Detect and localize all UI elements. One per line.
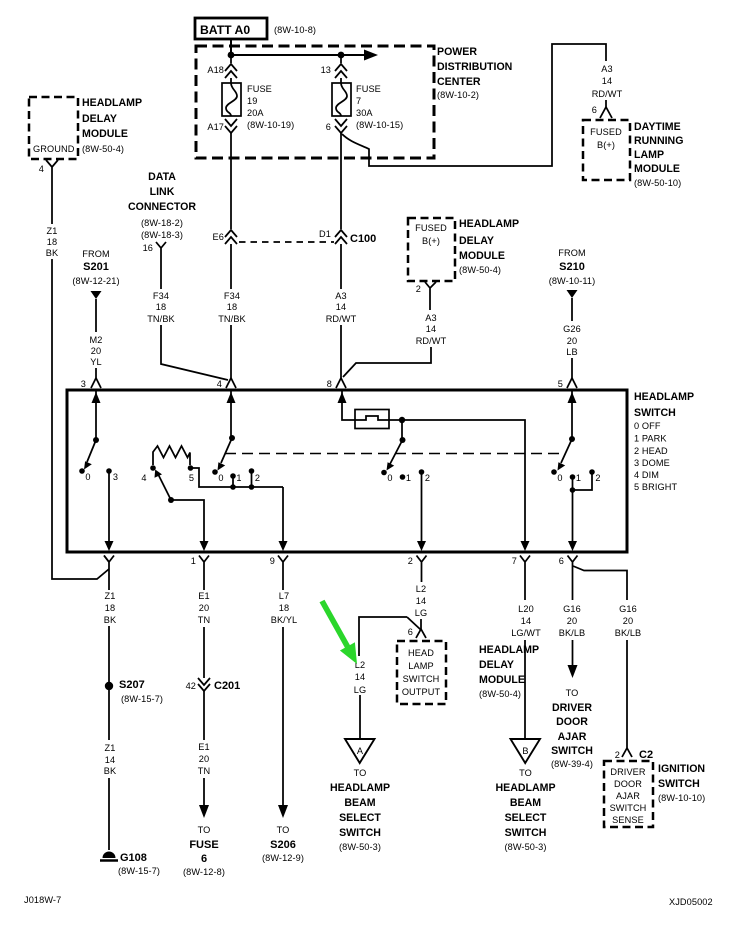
exit arrowhead pin 7	[521, 541, 530, 551]
svg-text:14: 14	[355, 672, 365, 682]
wire label F34 18 TN/BK (DLC branch)	[147, 291, 175, 324]
DLC pin 16 connector	[143, 242, 166, 253]
wire label L7 18 BK/YL	[271, 591, 298, 625]
svg-text:BK: BK	[104, 615, 117, 625]
svg-text:18: 18	[227, 302, 237, 312]
wire to fuse 7	[340, 78, 342, 83]
wire D1 to A3 label	[340, 244, 342, 289]
svg-text:2: 2	[425, 473, 430, 483]
svg-text:E1: E1	[198, 742, 209, 752]
ignition switch dashed box	[604, 761, 653, 827]
svg-text:RD/WT: RD/WT	[326, 314, 357, 324]
svg-text:HEADLAMP: HEADLAMP	[330, 782, 390, 794]
svg-text:CONNECTOR: CONNECTOR	[128, 201, 196, 213]
wire label A3 14 RD/WT (main)	[326, 291, 357, 324]
C100 dashed connector line	[239, 241, 334, 243]
junction dot at fuse 7 tap	[338, 52, 345, 59]
svg-text:F34: F34	[224, 291, 240, 301]
wire label L20 14 LG/WT	[511, 604, 541, 638]
svg-text:DELAY: DELAY	[82, 113, 117, 125]
svg-text:SWITCH: SWITCH	[403, 674, 440, 684]
wire S210 to switch pin 5	[571, 298, 573, 321]
switch pin 8 connector	[327, 378, 346, 389]
switch 1 pivot junction	[93, 437, 99, 443]
svg-text:5: 5	[558, 379, 563, 389]
svg-text:13: 13	[321, 65, 331, 75]
svg-text:DOOR: DOOR	[556, 716, 588, 728]
svg-text:(8W-10-10): (8W-10-10)	[658, 793, 705, 803]
svg-text:FROM: FROM	[558, 248, 585, 258]
wire to splice S207	[108, 626, 110, 683]
wire wiper to park lamp pin 1	[171, 500, 204, 544]
svg-text:3: 3	[81, 379, 86, 389]
svg-text:6: 6	[326, 122, 331, 132]
svg-text:G16: G16	[619, 604, 637, 614]
svg-text:DAYTIME: DAYTIME	[634, 121, 681, 133]
mechanical linkage dashed line	[225, 453, 562, 455]
dimmer wiper pivot	[168, 497, 174, 503]
svg-text:MODULE: MODULE	[634, 163, 680, 175]
svg-text:AJAR: AJAR	[616, 791, 640, 801]
destination label TO S206	[262, 825, 304, 863]
svg-text:POWER: POWER	[437, 46, 477, 58]
switch ground pin connector	[104, 556, 114, 571]
wire Z1 from HDM ground down	[51, 172, 53, 224]
svg-text:YL: YL	[90, 357, 101, 367]
svg-text:14: 14	[602, 76, 612, 86]
svg-text:SWITCH: SWITCH	[551, 745, 593, 757]
wire G26 to pin 5	[571, 358, 573, 378]
destination arrowhead (to fuse 6)	[199, 805, 209, 818]
svg-text:18: 18	[105, 603, 115, 613]
rheostat contact 5	[188, 465, 194, 471]
connector C201 (double chevron)	[186, 678, 241, 692]
svg-text:CENTER: CENTER	[437, 76, 481, 88]
svg-text:(8W-50-3): (8W-50-3)	[504, 842, 546, 852]
svg-text:L2: L2	[416, 584, 426, 594]
svg-text:C201: C201	[214, 680, 240, 692]
svg-text:(8W-50-4): (8W-50-4)	[479, 689, 521, 699]
wire pin 6 down (door ajar branch)	[572, 568, 574, 600]
HDM FUSED B(+) pin label	[415, 223, 447, 246]
wire pin 8 into switch	[342, 390, 355, 420]
switch 1 contact 3	[106, 468, 112, 474]
svg-text:TN/BK: TN/BK	[218, 314, 246, 324]
svg-text:(8W-10-2): (8W-10-2)	[437, 90, 479, 100]
switch 3 contact 1	[400, 474, 406, 480]
svg-text:7: 7	[356, 96, 361, 106]
svg-text:BEAM: BEAM	[344, 797, 375, 809]
dimmer rheostat resistor	[153, 446, 190, 465]
svg-text:SWITCH: SWITCH	[339, 827, 381, 839]
svg-text:A3: A3	[601, 64, 612, 74]
svg-text:TO: TO	[198, 825, 211, 835]
wire S207 down	[108, 690, 110, 740]
svg-text:1: 1	[236, 473, 241, 483]
exit arrowhead (ground pin)	[105, 541, 114, 551]
svg-text:BK: BK	[46, 248, 59, 258]
svg-text:2 HEAD: 2 HEAD	[634, 446, 668, 456]
pin 5 entry arrowhead	[568, 392, 577, 403]
svg-text:B(+): B(+)	[597, 140, 615, 150]
switch bottom pin (ground, unnumbered) connector	[104, 556, 109, 563]
switch 1 arm (dome switch)	[87, 440, 96, 462]
wire label M2 20 YL	[90, 335, 103, 367]
wire to connector C2	[626, 640, 628, 748]
svg-text:9: 9	[270, 556, 275, 566]
wire S201 to switch pin 3	[95, 299, 97, 332]
wire F34 to switch pin 4	[230, 325, 232, 378]
destination label TO DRIVER DOOR AJAR SWITCH	[551, 688, 593, 769]
off-page connector B	[511, 739, 541, 763]
bus wire with arrow	[231, 54, 365, 56]
wire label G16 20 BK/LB (left)	[559, 604, 586, 638]
svg-text:C100: C100	[350, 233, 376, 245]
svg-text:SENSE: SENSE	[612, 815, 644, 825]
wire bus to connector A18	[230, 55, 232, 63]
wire label E1 20 TN (lower)	[198, 742, 210, 776]
svg-text:FUSED: FUSED	[415, 223, 447, 233]
ignition switch pin label	[610, 767, 647, 825]
svg-text:(8W-18-2): (8W-18-2)	[141, 218, 183, 228]
bus arrowhead	[364, 50, 378, 61]
wire label Z1 18 BK	[46, 226, 59, 258]
svg-text:30A: 30A	[356, 108, 373, 118]
svg-text:20: 20	[567, 616, 577, 626]
svg-text:DATA: DATA	[148, 171, 176, 183]
svg-text:0 OFF: 0 OFF	[634, 421, 661, 431]
svg-text:5 BRIGHT: 5 BRIGHT	[634, 482, 677, 492]
switch pin 4 connector	[217, 378, 236, 389]
wire pin 5 into switch	[571, 390, 573, 439]
battery feed BATT A0 box	[195, 18, 267, 39]
switch 3 contact 2	[419, 469, 425, 475]
pin 8 entry arrowhead	[338, 392, 347, 403]
connector E6 (double chevron)	[213, 230, 237, 244]
svg-text:LAMP: LAMP	[634, 149, 664, 161]
svg-text:S206: S206	[270, 839, 296, 851]
svg-text:BK/LB: BK/LB	[559, 628, 586, 638]
svg-text:4 DIM: 4 DIM	[634, 470, 659, 480]
svg-text:19: 19	[247, 96, 257, 106]
switch 2 contact 0	[212, 469, 218, 475]
wire label A3 14 RD/WT (HDM branch)	[416, 313, 447, 346]
svg-text:(8W-39-4): (8W-39-4)	[551, 759, 593, 769]
junction dot breaker output	[399, 417, 405, 423]
svg-text:14: 14	[426, 324, 436, 334]
wire to HDM pin 6	[420, 619, 422, 629]
switch 3 arm (headlamp feed)	[390, 440, 403, 464]
power distribution center label	[437, 46, 512, 100]
pin 4 entry arrowhead	[227, 392, 236, 403]
svg-text:5: 5	[189, 473, 194, 483]
svg-text:AJAR: AJAR	[558, 731, 587, 743]
svg-text:18: 18	[279, 603, 289, 613]
wire DLC pin 16 down	[160, 253, 162, 289]
connector C2 pin 2	[615, 748, 653, 761]
svg-text:D1: D1	[319, 229, 331, 239]
svg-text:16: 16	[143, 243, 153, 253]
svg-text:20A: 20A	[247, 108, 264, 118]
svg-text:HEADLAMP: HEADLAMP	[82, 97, 142, 109]
svg-text:0: 0	[557, 473, 562, 483]
svg-text:S210: S210	[559, 261, 585, 273]
wire pin 1 down	[203, 570, 205, 590]
destination label TO FUSE 6	[183, 825, 225, 877]
svg-text:(8W-10-8): (8W-10-8)	[274, 25, 316, 35]
svg-text:DISTRIBUTION: DISTRIBUTION	[437, 61, 512, 73]
svg-text:FUSE: FUSE	[356, 84, 381, 94]
connector A18 (double chevron)	[207, 64, 237, 78]
svg-text:2: 2	[615, 750, 620, 760]
svg-text:0: 0	[218, 473, 223, 483]
svg-text:L20: L20	[518, 604, 534, 614]
exit arrowhead pin 6	[568, 541, 577, 551]
svg-text:DRIVER: DRIVER	[610, 767, 646, 777]
wire label G16 20 BK/LB (right)	[615, 604, 642, 638]
switch pin 7 connector	[512, 556, 530, 571]
wire A18 to fuse 19	[230, 78, 232, 83]
fuse 19 20A	[222, 83, 241, 116]
svg-text:14: 14	[105, 755, 115, 765]
svg-text:42: 42	[186, 681, 196, 691]
svg-text:OUTPUT: OUTPUT	[402, 687, 441, 697]
svg-text:RD/WT: RD/WT	[592, 89, 623, 99]
svg-text:LAMP: LAMP	[408, 661, 433, 671]
fuse 7 30A	[332, 83, 351, 116]
headlamp delay module label (bottom)	[479, 644, 539, 699]
svg-text:SWITCH: SWITCH	[610, 803, 647, 813]
splice source marker FROM S201	[72, 249, 119, 286]
wire breaker to junction	[389, 419, 402, 421]
wire C201 down	[203, 691, 205, 740]
svg-text:A17: A17	[207, 122, 224, 132]
svg-text:4: 4	[217, 379, 222, 389]
wire label A3 14 RD/WT (DRL feed)	[592, 64, 623, 99]
svg-text:J018W-7: J018W-7	[24, 895, 61, 905]
svg-text:(8W-50-10): (8W-50-10)	[634, 178, 681, 188]
svg-text:1: 1	[191, 556, 196, 566]
connector D1 (double chevron)	[319, 229, 347, 244]
svg-text:RD/WT: RD/WT	[416, 336, 447, 346]
switch 1 contact 0	[79, 468, 85, 474]
svg-text:TN: TN	[198, 766, 210, 776]
svg-text:BATT A0: BATT A0	[200, 23, 250, 37]
wire E6 to F34 label	[230, 244, 232, 289]
svg-text:HEADLAMP: HEADLAMP	[634, 391, 694, 403]
wire ground pin down to S207	[108, 570, 110, 590]
svg-text:(8W-12-21): (8W-12-21)	[72, 276, 119, 286]
connector pin 6 (double chevron)	[326, 119, 347, 133]
svg-text:0: 0	[387, 473, 392, 483]
svg-text:3: 3	[113, 472, 118, 482]
wire lamp bus to pin 9	[282, 487, 284, 544]
svg-text:BEAM: BEAM	[510, 797, 541, 809]
svg-text:GROUND: GROUND	[33, 144, 75, 154]
svg-text:FROM: FROM	[82, 249, 109, 259]
wire pin 9 down	[282, 570, 284, 590]
headlamp delay module label (left)	[82, 97, 142, 154]
svg-text:(8W-50-4): (8W-50-4)	[82, 144, 124, 154]
wire label L2 14 LG (branch)	[354, 660, 366, 695]
svg-text:1: 1	[406, 473, 411, 483]
svg-text:TN/BK: TN/BK	[147, 314, 175, 324]
svg-text:(8W-12-9): (8W-12-9)	[262, 853, 304, 863]
svg-text:7: 7	[512, 556, 517, 566]
svg-text:LG/WT: LG/WT	[511, 628, 541, 638]
svg-text:2: 2	[416, 284, 421, 294]
svg-text:B: B	[522, 746, 528, 756]
wire contact 3 to bottom pin	[108, 473, 110, 544]
splice S207	[105, 679, 163, 704]
svg-text:HEAD: HEAD	[408, 648, 434, 658]
wire branch fuse 7 to daytime running lamp module	[342, 44, 606, 166]
switch pin 3 connector	[81, 378, 101, 389]
fuse 7 value labels	[356, 84, 403, 130]
svg-text:Z1: Z1	[105, 743, 116, 753]
svg-text:1: 1	[576, 473, 581, 483]
svg-text:SELECT: SELECT	[505, 812, 547, 824]
svg-text:RUNNING: RUNNING	[634, 135, 683, 147]
wire label L2 14 LG (main)	[415, 584, 427, 618]
fuse 19 value labels	[247, 84, 294, 130]
wire label E1 20 TN (upper)	[198, 591, 210, 625]
wire to pin 6	[572, 490, 574, 544]
svg-text:BK/YL: BK/YL	[271, 615, 298, 625]
svg-text:TO: TO	[566, 688, 579, 698]
svg-text:HEADLAMP: HEADLAMP	[459, 218, 519, 230]
svg-text:6: 6	[559, 556, 564, 566]
wire to S206 arrow	[282, 627, 284, 806]
wire pin 4 into switch	[230, 390, 232, 438]
svg-text:(8W-50-4): (8W-50-4)	[459, 265, 501, 275]
wire branch to ignition switch	[573, 566, 627, 600]
svg-text:MODULE: MODULE	[479, 674, 525, 686]
svg-text:G108: G108	[120, 852, 147, 864]
wire to triangle A	[359, 695, 361, 739]
svg-text:IGNITION: IGNITION	[658, 763, 705, 775]
switch 2 arm (park/head feed)	[221, 438, 232, 463]
headlamp delay module (ground) dashed box	[29, 97, 78, 159]
wire label G26 20 LB	[563, 324, 581, 357]
wire pin 2 down	[421, 568, 423, 582]
svg-text:(8W-18-3): (8W-18-3)	[141, 230, 183, 240]
destination label TO HEADLAMP BEAM SELECT SWITCH (A)	[330, 768, 390, 852]
svg-text:18: 18	[156, 302, 166, 312]
svg-text:TO: TO	[519, 768, 532, 778]
switch 2 contact 2	[249, 468, 255, 474]
svg-text:TO: TO	[354, 768, 367, 778]
svg-text:BK/LB: BK/LB	[615, 628, 642, 638]
svg-text:(8W-12-8): (8W-12-8)	[183, 867, 225, 877]
svg-text:6: 6	[592, 105, 597, 115]
wire pin 3 into switch	[95, 390, 97, 440]
svg-text:MODULE: MODULE	[82, 128, 128, 140]
svg-text:HEADLAMP: HEADLAMP	[479, 644, 539, 656]
daytime running lamp module dashed box	[583, 120, 630, 180]
headlamp switch label and position legend	[634, 391, 694, 492]
switch pin 1 connector	[191, 556, 209, 571]
svg-text:G16: G16	[563, 604, 581, 614]
svg-text:SWITCH: SWITCH	[658, 778, 700, 790]
switch 4 contact 2	[589, 469, 595, 475]
svg-text:(8W-10-19): (8W-10-19)	[247, 120, 294, 130]
switch pin 5 connector	[558, 378, 577, 389]
switch pin 2 connector	[408, 556, 427, 569]
wire to triangle B	[524, 640, 526, 739]
exit arrowhead pin 2	[417, 541, 426, 551]
svg-text:Z1: Z1	[47, 226, 58, 236]
svg-text:E6: E6	[213, 232, 224, 242]
svg-text:(8W-15-7): (8W-15-7)	[118, 866, 160, 876]
svg-text:6: 6	[201, 853, 207, 865]
wire label F34 18 TN/BK (main)	[218, 291, 246, 324]
exit arrowhead pin 9	[279, 541, 288, 551]
pin 3 entry arrowhead	[92, 392, 101, 403]
switch 4 contact 0	[551, 469, 557, 475]
svg-text:DOOR: DOOR	[614, 779, 642, 789]
daytime running lamp module label	[634, 121, 683, 188]
svg-text:(8W-50-3): (8W-50-3)	[339, 842, 381, 852]
wire contact 2 to pin 2	[421, 472, 423, 544]
svg-text:Z1: Z1	[105, 591, 116, 601]
S201 feed arrow	[91, 291, 102, 299]
headlamp delay module (switch output) dashed box	[397, 641, 446, 704]
svg-text:14: 14	[521, 616, 531, 626]
svg-text:20: 20	[567, 336, 577, 346]
svg-text:E1: E1	[198, 591, 209, 601]
svg-text:FUSED: FUSED	[590, 127, 622, 137]
power distribution center dashed box	[196, 46, 434, 158]
svg-text:B(+): B(+)	[422, 236, 440, 246]
switch 2 contact 1	[230, 473, 236, 479]
wire branch to beam select A	[359, 617, 421, 656]
svg-text:20: 20	[199, 603, 209, 613]
HDM pin 4 connector	[39, 160, 58, 174]
svg-text:LB: LB	[566, 347, 577, 357]
destination arrowhead (to driver door ajar switch)	[568, 665, 578, 678]
green highlight arrow	[320, 600, 358, 664]
connector pin 13 (double chevron)	[321, 64, 347, 78]
headlamp delay module label (middle)	[459, 218, 519, 275]
svg-text:8: 8	[327, 379, 332, 389]
svg-text:LG: LG	[415, 608, 427, 618]
wire to fuse 6 arrow	[203, 778, 205, 806]
svg-text:SELECT: SELECT	[339, 812, 381, 824]
wire BATT A0 to bus	[230, 39, 232, 55]
wire Z1 down to switch ground splice	[52, 259, 109, 579]
switch 4 contact 1	[570, 474, 576, 480]
svg-text:SWITCH: SWITCH	[634, 407, 676, 419]
wire contact 5 to lamp bus	[191, 468, 284, 487]
DRL module FUSED B(+) pin label	[590, 127, 622, 150]
svg-text:MODULE: MODULE	[459, 250, 505, 262]
svg-text:M2: M2	[90, 335, 103, 345]
circuit breaker	[355, 410, 389, 429]
svg-text:XJD05002: XJD05002	[669, 897, 713, 907]
svg-text:TN: TN	[198, 615, 210, 625]
wire to connector C201	[203, 627, 205, 678]
S210 feed arrow	[567, 290, 578, 298]
svg-text:(8W-10-15): (8W-10-15)	[356, 120, 403, 130]
wire to ground G108	[108, 778, 110, 850]
svg-text:20: 20	[199, 754, 209, 764]
svg-text:LINK: LINK	[150, 186, 175, 198]
svg-text:HEADLAMP: HEADLAMP	[495, 782, 555, 794]
wire to door ajar arrow	[572, 640, 574, 666]
switch 2 pivot junction	[229, 435, 235, 441]
switch 3 contact 0	[381, 470, 387, 476]
